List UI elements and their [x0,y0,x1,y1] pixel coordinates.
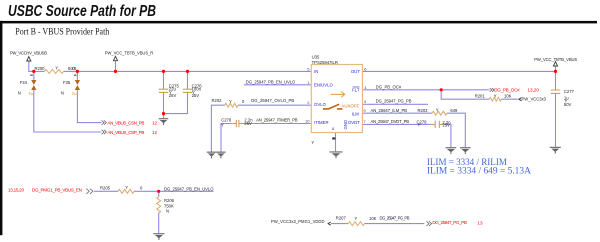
svg-text:USBC Source Path for PB: USBC Source Path for PB [8,3,156,20]
svg-text:F34: F34 [20,80,28,85]
svg-text:10K: 10K [504,94,512,99]
svg-text:R207: R207 [336,215,347,220]
svg-text:13,20: 13,20 [527,87,539,92]
svg-text:PW_VCC_TBTB_VBUS: PW_VCC_TBTB_VBUS [534,57,577,62]
svg-text:N: N [61,91,64,96]
svg-text:R201: R201 [475,94,486,99]
svg-text:GND: GND [343,120,348,130]
svg-text:25V: 25V [442,123,450,128]
svg-text:Y: Y [125,185,128,190]
svg-text:ITIMER: ITIMER [314,120,329,125]
svg-text:PW_VCC3x3: PW_VCC3x3 [522,96,547,101]
svg-text:IN: IN [314,69,318,74]
svg-text:Y: Y [494,94,497,99]
svg-text:DG_PB_OC#: DG_PB_OC# [494,87,520,92]
svg-text:AUXOFF: AUXOFF [341,104,359,109]
svg-text:N: N [18,91,21,96]
svg-text:DG_25947_PB_EN_UVLO: DG_25947_PB_EN_UVLO [164,186,214,191]
svg-text:25V: 25V [169,93,177,98]
svg-text:DG_PB_OC#: DG_PB_OC# [376,85,402,90]
svg-text:F35: F35 [63,80,71,85]
svg-text:Y: Y [221,123,224,128]
svg-text:DG_25947_PB_EN_UVLO: DG_25947_PB_EN_UVLO [246,80,296,85]
svg-text:R203: R203 [418,108,429,113]
svg-text:PW_VCC_TBTB_VBUS_R: PW_VCC_TBTB_VBUS_R [105,50,154,55]
svg-text:OUT: OUT [351,69,360,74]
svg-text:DG_25947_PG_PB: DG_25947_PG_PB [432,220,467,225]
svg-text:AN_25947_DVDT_PB: AN_25947_DVDT_PB [371,119,410,124]
svg-text:12: 12 [152,130,158,135]
svg-text:10K: 10K [369,216,377,221]
svg-text:12: 12 [152,121,158,126]
svg-text:U35: U35 [312,54,320,59]
svg-text:R200: R200 [35,66,46,71]
svg-text:50V: 50V [564,102,572,107]
svg-text:Y: Y [311,140,314,145]
svg-text:DG_25947_PG_PB: DG_25947_PG_PB [376,99,412,104]
svg-text:ILIM = 3334 / 649 = 5.13A: ILIM = 3334 / 649 = 5.13A [427,165,531,175]
svg-text:TPS25947ILR: TPS25947ILR [312,60,338,65]
svg-text:10: 10 [305,119,310,124]
svg-text:AN_VBUS_CSN_PB: AN_VBUS_CSN_PB [107,121,144,126]
svg-text:Port B - VBUS Provider Path: Port B - VBUS Provider Path [15,27,109,38]
svg-text:DG_25947_PG_PB: DG_25947_PG_PB [380,216,410,221]
svg-text:25V: 25V [244,121,252,126]
svg-text:DG_25947_OVLO_PB: DG_25947_OVLO_PB [251,98,294,103]
svg-text:Y: Y [55,65,58,70]
svg-text:ILM: ILM [352,111,360,116]
svg-text:AN_25947_ILM_PB: AN_25947_ILM_PB [371,108,408,113]
svg-text:649: 649 [450,108,458,113]
svg-text:N: N [166,209,169,214]
svg-text:Y: Y [229,99,232,104]
svg-text:EN/UVLO: EN/UVLO [314,82,334,87]
svg-text:R205: R205 [100,185,111,190]
svg-text:DG_PMG1_PB_VBUS_EN: DG_PMG1_PB_VBUS_EN [32,188,82,193]
svg-text:Y: Y [418,122,421,127]
svg-text:R202: R202 [212,98,223,103]
svg-text:AN_25947_ITIMER_PB: AN_25947_ITIMER_PB [256,117,298,122]
svg-text:25V: 25V [192,93,200,98]
svg-text:PW_VCC3x3_PMG1_VDDD: PW_VCC3x3_PMG1_VDDD [271,219,325,224]
svg-text:Y: Y [436,108,439,113]
svg-text:Y: Y [355,216,358,221]
svg-text:C277: C277 [564,89,575,94]
svg-text:Fu: Fu [72,92,76,96]
svg-text:0.005: 0.005 [68,66,77,71]
svg-text:DVDT: DVDT [348,120,360,125]
svg-text:OVLO: OVLO [314,102,327,107]
svg-text:PW_VCCHV_VBUSB: PW_VCCHV_VBUSB [10,50,47,55]
svg-text:13: 13 [477,220,483,225]
svg-text:13,15,20: 13,15,20 [8,188,24,193]
svg-text:AN_VBUS_CSP_PB: AN_VBUS_CSP_PB [107,130,144,135]
svg-text:FLT: FLT [352,88,360,93]
svg-text:Fu: Fu [29,92,33,96]
